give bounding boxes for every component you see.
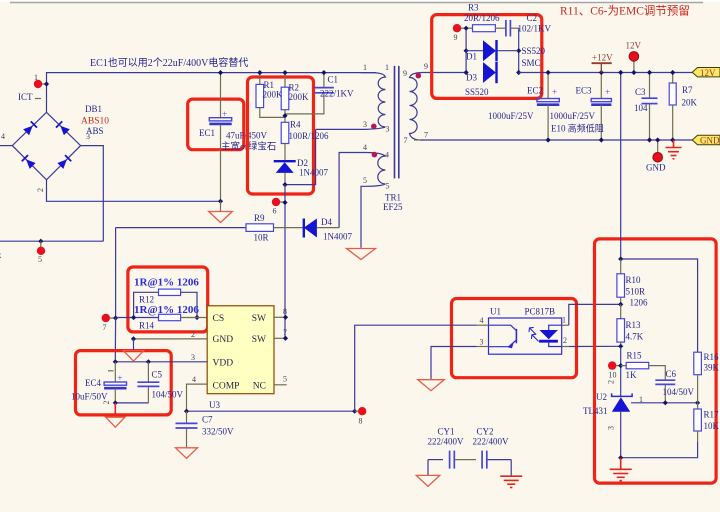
capacitor C7 332/50V — [176, 411, 198, 448]
svg-text:222/1KV: 222/1KV — [320, 89, 354, 99]
svg-text:E10 高频低阻: E10 高频低阻 — [551, 123, 604, 134]
svg-text:7: 7 — [404, 136, 408, 145]
svg-text:3: 3 — [607, 426, 616, 430]
svg-text:1: 1 — [562, 316, 566, 325]
svg-text:3: 3 — [363, 120, 367, 129]
U1 pin3 wire to gnd — [477, 346, 489, 348]
power symbol +12V — [592, 62, 612, 64]
port GND — [692, 135, 720, 144]
svg-text:+: + — [222, 109, 227, 119]
svg-text:PC817B: PC817B — [525, 307, 556, 317]
svg-text:ICT: ICT — [18, 92, 33, 102]
ground C7 — [176, 448, 198, 459]
transformer pin 3 test point — [371, 124, 377, 130]
svg-text:2: 2 — [563, 336, 567, 345]
svg-text:104/50V: 104/50V — [663, 387, 695, 397]
svg-text:1000uF/25V: 1000uF/25V — [550, 111, 596, 121]
svg-text:1K: 1K — [626, 370, 638, 380]
svg-text:5: 5 — [38, 255, 42, 264]
resistor R16 39K — [694, 352, 702, 403]
red box R12 R14 — [128, 267, 208, 332]
svg-text:DB1: DB1 — [85, 104, 102, 114]
svg-text:200K: 200K — [263, 90, 284, 100]
svg-text:C5: C5 — [152, 370, 163, 380]
svg-text:C3: C3 — [635, 87, 646, 97]
ground CY2 earth — [510, 460, 512, 476]
svg-text:EF25: EF25 — [383, 202, 403, 212]
svg-text:R1: R1 — [264, 80, 275, 90]
bridge rectifier DB1 — [12, 112, 80, 180]
svg-text:SW: SW — [252, 335, 266, 345]
svg-text:9: 9 — [424, 62, 428, 71]
svg-text:3: 3 — [480, 338, 484, 347]
wire 12V rail — [519, 72, 693, 74]
svg-text:10uF/50V: 10uF/50V — [71, 392, 108, 402]
op-amp U1 PC817B optocoupler — [489, 318, 562, 354]
svg-text:R17: R17 — [704, 410, 720, 420]
svg-text:12V: 12V — [626, 41, 642, 51]
svg-text:4: 4 — [1, 132, 5, 141]
svg-text:R13: R13 — [626, 320, 642, 330]
U1 pin1 wire to R10/R13 node — [562, 324, 569, 326]
node 6 test point — [277, 201, 285, 203]
svg-text:5: 5 — [386, 182, 390, 191]
wire VDD rail — [115, 361, 207, 363]
svg-text:R12: R12 — [139, 295, 154, 305]
resistor R1 200K — [256, 73, 285, 118]
wire pin5 to ground — [361, 186, 366, 248]
wire COMP rail — [187, 410, 355, 412]
ground feedback earth — [620, 458, 622, 470]
svg-text:4: 4 — [385, 151, 389, 160]
svg-text:D4: D4 — [321, 217, 332, 227]
svg-text:39K: 39K — [704, 363, 720, 373]
ground aux winding — [347, 249, 376, 260]
wire EC4 C5 bottom — [115, 402, 148, 404]
node 9 test point — [457, 27, 466, 29]
wire bridge pin2 to EC1 bottom / primary gnd — [47, 180, 221, 202]
wire divider top — [621, 259, 698, 352]
ground primary at EC1 — [218, 199, 223, 204]
svg-text:4.7K: 4.7K — [626, 332, 644, 342]
border top line — [10, 2, 703, 4]
svg-text:1R@1% 1206: 1R@1% 1206 — [134, 304, 199, 316]
svg-text:R7: R7 — [682, 85, 693, 95]
node 7 test point — [107, 317, 116, 319]
svg-text:1: 1 — [639, 395, 643, 404]
resistor R4 100R/1206 — [281, 122, 289, 160]
svg-text:TR1: TR1 — [385, 193, 401, 203]
svg-text:R16: R16 — [704, 352, 720, 362]
svg-text:200K: 200K — [289, 92, 310, 102]
wire TL431 anode — [620, 412, 622, 458]
diode D1 SS520 — [466, 40, 519, 61]
wire GND rail — [414, 139, 423, 141]
svg-text:6: 6 — [273, 207, 277, 216]
svg-text:9: 9 — [454, 33, 458, 42]
svg-text:CS: CS — [213, 314, 225, 324]
svg-text:SW: SW — [252, 314, 266, 324]
svg-text:8: 8 — [283, 307, 287, 316]
ground secondary earth — [673, 140, 675, 148]
resistor R13 4.7K — [617, 304, 625, 346]
node 10 test point — [613, 365, 621, 367]
svg-text:1: 1 — [363, 63, 367, 72]
transformer aux winding pins 4-5 — [366, 153, 385, 187]
svg-text:222/400V: 222/400V — [428, 437, 465, 447]
svg-text:2: 2 — [607, 380, 616, 384]
svg-text:U3: U3 — [209, 400, 220, 410]
resistor R7 20K — [669, 73, 676, 141]
svg-text:2: 2 — [36, 188, 45, 192]
svg-text:NC: NC — [253, 381, 266, 391]
svg-text:C1: C1 — [328, 75, 339, 85]
ground EC4 — [114, 403, 116, 417]
svg-text:D2: D2 — [297, 158, 308, 168]
capacitor EC2 1000uF/25V — [537, 73, 559, 141]
svg-text:510R: 510R — [626, 287, 646, 297]
wire 12V to divider — [620, 73, 622, 260]
capacitor EC4 10uF/50V — [104, 362, 126, 403]
svg-text:104: 104 — [634, 103, 648, 113]
svg-text:12V: 12V — [700, 68, 716, 78]
svg-text:3: 3 — [191, 353, 195, 362]
svg-text:GND: GND — [700, 136, 720, 146]
svg-text:EC3: EC3 — [576, 86, 593, 96]
svg-text:10R: 10R — [254, 233, 269, 243]
svg-text:SMC: SMC — [522, 58, 541, 68]
resistor R14 1R — [159, 314, 208, 320]
svg-text:COMP: COMP — [213, 381, 240, 391]
wire CS row — [116, 317, 159, 319]
wire feedback bottom — [621, 442, 698, 458]
capacitor CY1 222/400V — [428, 451, 454, 469]
red box snubber — [248, 77, 314, 194]
svg-text:R15: R15 — [627, 351, 643, 361]
U1 pin4 wire to COMP net — [477, 324, 489, 326]
svg-text:1N4007: 1N4007 — [299, 168, 328, 178]
svg-text:GND: GND — [646, 163, 666, 173]
resistor R2 200K — [281, 73, 289, 123]
resistor R3 20R/1206 — [466, 25, 505, 32]
red box feedback — [595, 239, 717, 483]
svg-text:20R/1206: 20R/1206 — [464, 13, 500, 23]
wire D2 anode to switch node — [285, 129, 316, 184]
svg-text:4: 4 — [192, 375, 196, 384]
wire D4 to transformer pin 4 — [339, 153, 366, 228]
resistor R9 10R — [116, 224, 304, 232]
svg-text:SS520: SS520 — [465, 87, 489, 97]
transformer pin 9 test point — [416, 73, 422, 79]
node 5 test point — [38, 239, 43, 244]
svg-text:EC1也可以用2个22uF/400V电容替代: EC1也可以用2个22uF/400V电容替代 — [90, 56, 248, 69]
capacitor EC3 1000uF/25V — [591, 73, 611, 141]
svg-text:U2: U2 — [596, 392, 607, 402]
svg-text:EC2: EC2 — [527, 86, 543, 96]
resistor R10 510R 1206 — [617, 259, 625, 304]
wire TL431 ref — [631, 402, 698, 404]
resistor R12 1R — [134, 289, 197, 317]
wire bridge pin3 down to node 5 rail — [81, 146, 104, 242]
svg-text:1000uF/25V: 1000uF/25V — [488, 111, 534, 121]
capacitor CY2 222/400V — [455, 451, 511, 469]
svg-text:7: 7 — [103, 323, 107, 332]
svg-text:R2: R2 — [289, 83, 300, 93]
node 8 test point — [355, 410, 362, 412]
resistor R15 1K — [621, 362, 666, 379]
svg-text:3: 3 — [86, 132, 90, 141]
svg-text:104/50V: 104/50V — [152, 390, 184, 400]
svg-text:10: 10 — [609, 371, 617, 380]
U3 SW pins wires — [274, 316, 286, 318]
svg-text:R10: R10 — [626, 275, 642, 285]
svg-text:EC4: EC4 — [85, 378, 102, 388]
ground U1 pin3 — [418, 380, 444, 391]
U1 pin2 wire to R13/R15 node — [562, 346, 570, 348]
wire snubber right leg — [518, 28, 520, 72]
svg-text:1N4007: 1N4007 — [323, 232, 352, 242]
svg-text:2: 2 — [191, 330, 195, 339]
svg-text:9: 9 — [403, 69, 407, 78]
svg-text:5: 5 — [283, 375, 287, 384]
svg-text:3: 3 — [386, 125, 390, 134]
svg-text:+: + — [605, 87, 610, 97]
diode D2 1N4007 — [274, 161, 296, 184]
resistor R17 10K — [694, 403, 702, 442]
wire bridge pin4 to edge — [0, 145, 12, 147]
wire rectifier left leg — [465, 28, 467, 72]
svg-text:D3: D3 — [466, 73, 477, 83]
capacitor C3 104 — [642, 73, 658, 141]
capacitor EC1 47uF/450V — [209, 73, 231, 202]
node 12V test point — [633, 61, 635, 73]
op-amp U3 controller IC — [207, 306, 274, 394]
svg-text:C2: C2 — [527, 13, 538, 23]
svg-text:VDD: VDD — [213, 359, 234, 369]
capacitor C2 102/1KV — [506, 20, 519, 37]
svg-text:4: 4 — [363, 143, 367, 152]
svg-text:R11、C6-为EMC调节预留: R11、C6-为EMC调节预留 — [560, 5, 690, 18]
transformer pin 4 test point — [372, 152, 378, 158]
wire secondary pin9 to rectifier — [421, 72, 466, 74]
svg-text:R14: R14 — [139, 321, 155, 331]
capacitor C1 222/1KV — [285, 73, 334, 114]
transformer secondary winding pins 9-7 — [410, 73, 422, 140]
wire SW net vertical — [284, 185, 286, 339]
svg-text:TL431: TL431 — [583, 406, 608, 416]
svg-text:5: 5 — [363, 176, 367, 185]
svg-text:ABS10: ABS10 — [81, 117, 109, 127]
U3 pin 2 GND wire — [134, 338, 208, 340]
svg-text:20K: 20K — [682, 98, 698, 108]
red box EC1 — [188, 99, 244, 150]
svg-text:C6: C6 — [666, 369, 677, 379]
svg-text:R9: R9 — [254, 213, 265, 223]
ground U3 gnd pin — [123, 351, 143, 362]
svg-text:R3: R3 — [468, 3, 479, 13]
svg-text:332/50V: 332/50V — [202, 427, 234, 437]
wire R9 to node 7 — [115, 228, 117, 318]
node GND test point — [657, 140, 659, 153]
svg-text:R4: R4 — [290, 120, 301, 130]
svg-text:1R@1% 1206: 1R@1% 1206 — [134, 277, 199, 289]
svg-text:GND: GND — [213, 335, 234, 345]
svg-text:102/1KV: 102/1KV — [518, 24, 552, 34]
wire node7 down to VDD rail — [114, 318, 116, 362]
svg-text:+12V: +12V — [592, 53, 613, 63]
red box EC4 C5 — [76, 351, 172, 415]
svg-text:SS520: SS520 — [522, 46, 546, 56]
svg-text:2: 2 — [102, 401, 111, 405]
capacitor C6 104/50V — [655, 380, 675, 403]
diode D4 1N4007 — [304, 219, 339, 238]
svg-text:D1: D1 — [466, 52, 477, 62]
svg-text:7: 7 — [283, 328, 287, 337]
svg-text:CY2: CY2 — [477, 427, 494, 437]
transformer primary winding pins 1-3 — [361, 73, 385, 130]
transformer TR1 core — [394, 66, 396, 178]
U3 pin 4 COMP wire — [187, 384, 208, 411]
red box U1 — [452, 299, 577, 378]
svg-text:1206: 1206 — [630, 298, 649, 308]
svg-text:7: 7 — [424, 131, 428, 140]
svg-text:+: + — [552, 87, 557, 97]
diode D3 SS520 — [483, 62, 497, 83]
red box rectifier — [432, 15, 542, 99]
wire AC input top rail — [47, 73, 377, 113]
svg-text:1: 1 — [385, 63, 389, 72]
wire R13 to TL431 — [620, 346, 622, 396]
node 1 test point — [38, 83, 47, 85]
svg-text:8: 8 — [359, 417, 363, 426]
port 12V — [692, 68, 720, 77]
svg-text:1: 1 — [34, 73, 38, 82]
transistor U2 TL431 — [612, 393, 633, 411]
svg-text:CY1: CY1 — [438, 427, 455, 437]
svg-text:EC1: EC1 — [199, 128, 215, 138]
wire node 5 rail — [0, 240, 103, 242]
svg-text:C7: C7 — [202, 415, 213, 425]
svg-text:100R/1206: 100R/1206 — [289, 131, 330, 141]
svg-text:U1: U1 — [490, 307, 501, 317]
capacitor C5 104/50V — [137, 362, 159, 403]
svg-text:10K: 10K — [704, 421, 720, 431]
svg-text:222/400V: 222/400V — [473, 437, 510, 447]
svg-text:4: 4 — [480, 316, 484, 325]
ground CY1 — [427, 460, 429, 476]
wire pin3 to snubber — [316, 128, 366, 130]
